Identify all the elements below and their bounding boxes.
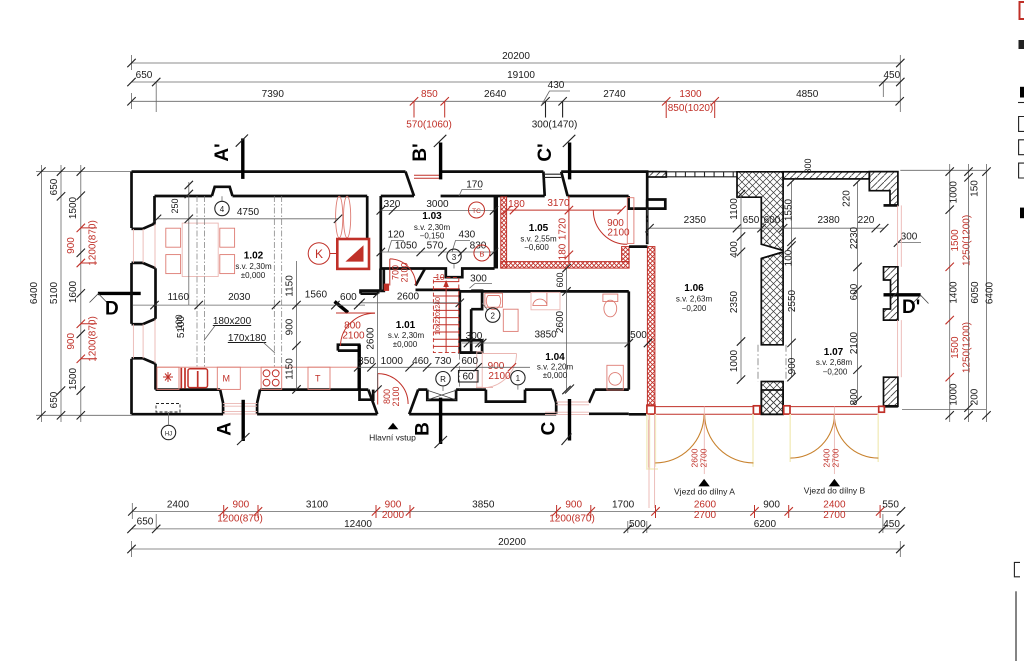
svg-text:450: 450 (883, 519, 900, 530)
right wall mid pier (hatched) (884, 267, 898, 320)
svg-text:1720: 1720 (558, 217, 569, 240)
svg-text:900: 900 (385, 500, 402, 511)
porch wall corner block (360, 390, 374, 400)
circle 4 (221, 196, 223, 201)
svg-text:3: 3 (452, 253, 457, 262)
1.06 dims (645, 190, 888, 384)
svg-text:400: 400 (729, 241, 740, 258)
svg-text:1700: 1700 (612, 500, 635, 511)
svg-text:1.01: 1.01 (396, 320, 416, 331)
section marker C' (568, 143, 571, 180)
dim 300 right wall (894, 232, 921, 247)
west wall outer face (130, 172, 133, 228)
garage entry labels (674, 448, 735, 496)
door 1.01 to 1.04: leaf + swing (460, 352, 517, 390)
svg-text:1000: 1000 (949, 181, 960, 204)
svg-text:2350: 2350 (729, 290, 740, 313)
chimney axis dash-dot lines (757, 345, 759, 382)
north wall 1.07 (diagonal hatch band) (783, 172, 869, 179)
door 1.03 to 1.01: leaf + swing + red infill (384, 259, 416, 291)
svg-text:Vjezd do dílny B: Vjezd do dílny B (804, 486, 866, 496)
svg-text:C: C (539, 421, 560, 435)
svg-text:300: 300 (803, 158, 813, 173)
svg-text:1250(1200): 1250(1200) (962, 322, 973, 373)
svg-text:1600: 1600 (68, 280, 79, 303)
chimney niche trapezoid in north wall (212, 187, 233, 196)
red jamb marker boxes (647, 405, 655, 414)
svg-text:1160: 1160 (168, 292, 190, 303)
north wall outer face (132, 170, 406, 173)
dim row3 7390/850/2640/430/2740/1300/4850 (127, 80, 904, 131)
1.01 dim 2600 vertical (366, 289, 382, 393)
svg-text:1150: 1150 (285, 358, 296, 380)
svg-text:250: 250 (170, 198, 180, 213)
svg-text:2700: 2700 (694, 510, 717, 521)
svg-text:3850: 3850 (472, 500, 495, 511)
1.02 dim 4750 (153, 181, 342, 223)
svg-text:900: 900 (233, 500, 250, 511)
svg-text:Hlavní vstup: Hlavní vstup (369, 433, 416, 443)
dim row1 bottom (128, 500, 905, 525)
svg-text:2100: 2100 (342, 331, 365, 342)
garage door B threshold (red) (790, 406, 879, 408)
svg-text:500: 500 (629, 519, 646, 530)
svg-text:180: 180 (508, 199, 525, 210)
stove K (red square with triangle) (330, 239, 369, 269)
dim row3 bottom 20200 (127, 537, 904, 557)
svg-text:3850: 3850 (534, 330, 557, 341)
1.04 wall pillar (471, 291, 482, 310)
svg-text:1100: 1100 (729, 198, 740, 220)
svg-text:6400: 6400 (985, 281, 996, 304)
red circle B (474, 245, 490, 261)
circle R (436, 372, 450, 386)
svg-text:550: 550 (882, 500, 899, 511)
svg-text:20200: 20200 (502, 51, 530, 62)
svg-text:B: B (479, 250, 484, 259)
main entrance label (388, 423, 399, 430)
svg-text:1.02: 1.02 (244, 251, 264, 262)
svg-text:600: 600 (340, 292, 357, 303)
corridor 300 dims (462, 274, 492, 348)
dim line 6400 left (29, 165, 46, 422)
svg-text:3000: 3000 (426, 199, 449, 210)
chimney middle block (crosshatch) (761, 252, 783, 345)
svg-text:60: 60 (462, 372, 474, 383)
left dimension chains (29, 165, 141, 422)
kitchen/porch divider (338, 345, 361, 351)
dim row1 20200 (127, 51, 904, 112)
svg-text:1400: 1400 (949, 281, 960, 304)
svg-text:7390: 7390 (262, 89, 285, 100)
right dimension chains (884, 164, 996, 422)
svg-text:120: 120 (388, 230, 405, 241)
section marker A (241, 400, 244, 441)
svg-text:100: 100 (784, 249, 795, 266)
svg-text:2400: 2400 (167, 500, 190, 511)
svg-text:300(1470): 300(1470) (532, 120, 578, 131)
svg-text:3170: 3170 (547, 198, 570, 209)
svg-text:2400: 2400 (823, 500, 846, 511)
svg-text:600: 600 (555, 272, 565, 287)
svg-text:350: 350 (358, 356, 375, 367)
top dimension chain (127, 51, 904, 131)
svg-text:1050: 1050 (395, 241, 418, 252)
svg-text:−0,200: −0,200 (823, 368, 848, 377)
red circle TC (469, 202, 485, 218)
svg-text:2550: 2550 (787, 289, 798, 312)
svg-text:19100: 19100 (507, 70, 535, 81)
svg-text:1550: 1550 (784, 198, 795, 221)
right wall window glazing (pink) upper (884, 205, 902, 266)
garage south closing line at house joint (629, 413, 647, 416)
svg-text:500: 500 (630, 330, 647, 341)
porch recess in south wall (486, 390, 525, 402)
1.02 vertical dim 1150/900/1150 (174, 261, 301, 394)
svg-text:1200(870): 1200(870) (217, 514, 263, 525)
svg-text:600: 600 (849, 283, 860, 300)
wall 1.03 south, top face with notch (380, 269, 495, 278)
svg-text:900: 900 (565, 500, 582, 511)
svg-text:220: 220 (842, 190, 853, 207)
dim row2 650/19100/450 (127, 70, 904, 112)
section marker C (568, 399, 571, 441)
svg-text:850: 850 (421, 89, 438, 100)
svg-text:650: 650 (743, 215, 760, 226)
svg-text:s.v. 2,68m: s.v. 2,68m (816, 358, 853, 367)
svg-text:4: 4 (220, 205, 225, 214)
hatched lintel over garage west joint (648, 172, 667, 177)
dim line 650/5100/650 left (49, 165, 65, 422)
svg-text:−0,200: −0,200 (682, 304, 707, 313)
svg-text:1.04: 1.04 (545, 352, 565, 363)
NE step of house top wall at garage joint (629, 172, 648, 209)
svg-text:900: 900 (763, 500, 780, 511)
svg-text:K: K (315, 247, 323, 261)
1.04 dims (478, 264, 652, 394)
1.04 fixtures (485, 292, 623, 390)
svg-text:±0,000: ±0,000 (393, 340, 418, 349)
svg-text:2380: 2380 (817, 215, 840, 226)
svg-text:1150: 1150 (285, 275, 296, 297)
1.02 radiator lenses (336, 196, 351, 238)
svg-text:−0,150: −0,150 (420, 232, 445, 241)
1.02 floor labels (176, 315, 275, 353)
west window2 jambs (132, 319, 156, 324)
svg-text:2230: 2230 (849, 226, 860, 249)
north wall inner face (155, 195, 212, 198)
south wall outer face (132, 413, 224, 416)
dim line 1500/900/1600/900/1500 left (66, 165, 99, 422)
1.01/1.04 wall (458, 290, 461, 353)
1.07 dims (784, 158, 862, 405)
C door-window (pink glazing) (545, 402, 589, 414)
chimney bottom block (crosshatch) (761, 382, 783, 415)
svg-text:300: 300 (470, 274, 487, 285)
svg-text:600: 600 (764, 215, 781, 226)
R niche with X mark (427, 390, 456, 400)
stairs in 1.01 (433, 273, 458, 353)
wall 1.03 south bottom face (416, 289, 460, 292)
C' window (grey glazing lines) (544, 174, 561, 177)
svg-text:Vjezd do dílny A: Vjezd do dílny A (674, 487, 735, 497)
svg-text:600: 600 (461, 356, 478, 367)
svg-text:850(1020): 850(1020) (668, 103, 714, 114)
svg-text:2600: 2600 (694, 500, 717, 511)
svg-text:1200(870): 1200(870) (88, 316, 99, 362)
section marker B' (439, 143, 442, 180)
1.05 new wall east step (red hatch) (622, 247, 630, 262)
kitchen counter row (157, 367, 358, 389)
bottom dimension chains (127, 500, 905, 558)
window west 2 (red glazing) (133, 320, 155, 364)
C door-window jambs (552, 390, 556, 414)
B' entry door (red glazing lines) (414, 175, 441, 178)
garage door A threshold (red) (655, 406, 753, 408)
svg-text:900: 900 (285, 318, 296, 335)
1.05 new wall west band (red hatch) (501, 197, 507, 268)
svg-text:1200(870): 1200(870) (88, 220, 99, 266)
svg-text:A': A' (212, 143, 233, 161)
svg-text:s.v. 2,30m: s.v. 2,30m (235, 262, 272, 271)
south wall inner face (156, 388, 221, 391)
red circle K (308, 243, 330, 265)
svg-text:900: 900 (787, 357, 798, 374)
svg-text:2600: 2600 (397, 292, 420, 303)
svg-text:300: 300 (466, 331, 483, 342)
dim line 150/6050/200 right (964, 164, 981, 422)
1.05 new wall south band (red hatch) (501, 262, 629, 269)
svg-text:220: 220 (858, 215, 875, 226)
svg-text:6200: 6200 (754, 519, 777, 530)
dim row2 bottom 650/12400/500/6200/450 (127, 514, 904, 533)
1.01 bottom chain 350/1000/460/730/600/900 (354, 356, 530, 383)
1.02 dining table (166, 223, 235, 276)
1.02 axes dash-dot (196, 196, 198, 367)
svg-text:320: 320 (384, 199, 401, 210)
svg-text:430: 430 (459, 230, 476, 241)
svg-text:1300: 1300 (679, 89, 702, 100)
door 1.02 to 1.01: leaf + swing (336, 313, 375, 346)
west window1 jambs (132, 223, 156, 229)
svg-text:900: 900 (66, 333, 77, 350)
svg-text:5100: 5100 (49, 281, 60, 304)
section marker B (439, 398, 442, 444)
1.04 north wall face (460, 290, 629, 293)
svg-text:1000: 1000 (381, 356, 404, 367)
430 sub-label with bent leader (541, 91, 570, 106)
svg-text:460: 460 (412, 356, 429, 367)
svg-text:450: 450 (883, 70, 900, 81)
svg-text:170x180: 170x180 (228, 333, 267, 344)
section marker D' (884, 295, 929, 318)
svg-text:2: 2 (490, 312, 495, 321)
svg-text:B: B (413, 422, 434, 436)
svg-text:1250(1200): 1250(1200) (962, 215, 973, 266)
svg-text:T: T (315, 374, 321, 384)
circle 1 (511, 371, 525, 385)
B' entry door jamb (406, 172, 415, 196)
svg-text:2740: 2740 (603, 89, 626, 100)
east wall of 1.04 (627, 291, 630, 389)
1.05 red dim lines (503, 196, 626, 262)
1.03 door right jamb slant (416, 269, 425, 286)
svg-text:2350: 2350 (684, 215, 707, 226)
svg-text:10: 10 (436, 273, 445, 282)
window west 1 (red glazing) (133, 224, 155, 268)
light north fence wall with tick divisions (666, 172, 737, 177)
svg-text:570: 570 (427, 241, 444, 252)
svg-text:1.07: 1.07 (824, 347, 844, 358)
main entrance door leaf + swing (378, 374, 408, 407)
svg-text:650: 650 (49, 178, 60, 195)
svg-text:800: 800 (849, 388, 860, 405)
svg-text:A: A (215, 422, 236, 436)
svg-text:300: 300 (901, 232, 918, 243)
chimney flue funnel notch (761, 252, 783, 259)
svg-text:430: 430 (548, 80, 565, 91)
garage door A swing (orange) (647, 407, 754, 474)
svg-text:TC: TC (472, 208, 481, 215)
svg-text:4850: 4850 (796, 89, 819, 100)
HJ dashed box (156, 404, 180, 413)
svg-text:1.05: 1.05 (529, 223, 549, 234)
svg-text:1500: 1500 (950, 229, 961, 252)
svg-text:R: R (440, 375, 446, 384)
svg-text:650: 650 (136, 70, 153, 81)
svg-text:1.03: 1.03 (422, 211, 442, 222)
svg-text:2700: 2700 (699, 448, 709, 467)
svg-text:1200(870): 1200(870) (549, 514, 595, 525)
section marker D (90, 293, 141, 319)
svg-text:150: 150 (970, 180, 981, 197)
section marker A' (241, 138, 244, 179)
svg-text:D: D (105, 299, 119, 320)
dim line 1000/1500/1400/1500/1000 right (946, 164, 973, 422)
garage west wall top anchor block (647, 200, 665, 209)
svg-text:3100: 3100 (306, 500, 329, 511)
chimney upper block (crosshatch) (737, 172, 783, 251)
svg-text:1.06: 1.06 (684, 283, 704, 294)
garage west new wall band (red hatch) (647, 247, 655, 406)
svg-text:C': C' (535, 143, 556, 161)
1.02/1.01 diagonal door jamb (335, 302, 349, 313)
red extension lines below garage west wall (648, 414, 650, 508)
chimney pier between garage doors (761, 390, 783, 414)
svg-text:730: 730 (435, 356, 452, 367)
red partial box top right (1020, 2, 1024, 19)
svg-text:1000: 1000 (729, 349, 740, 372)
svg-text:s.v. 2,30m: s.v. 2,30m (388, 331, 425, 340)
1.03 door left post (381, 269, 384, 291)
main entrance jambs (368, 390, 377, 415)
garage door B swing (orange) (790, 407, 878, 474)
svg-text:B': B' (410, 143, 431, 161)
NE corner block (diagonal hatch, stepped) (869, 172, 898, 206)
svg-text:M: M (223, 374, 231, 384)
svg-text:2600: 2600 (555, 310, 566, 333)
svg-text:12400: 12400 (344, 519, 372, 530)
svg-text:5100: 5100 (176, 315, 187, 338)
svg-text:1500: 1500 (950, 336, 961, 359)
svg-text:4750: 4750 (237, 207, 260, 218)
right wall window glazing (pink) lower (898, 320, 902, 377)
svg-text:2600: 2600 (366, 327, 377, 350)
svg-text:1500: 1500 (68, 196, 79, 219)
circle 3 (447, 249, 461, 263)
svg-text:s.v. 2,63m: s.v. 2,63m (676, 295, 713, 304)
svg-text:2100: 2100 (391, 386, 401, 406)
svg-text:170: 170 (466, 180, 483, 191)
svg-text:2700: 2700 (823, 510, 846, 521)
partial glyphs (1019, 40, 1024, 49)
svg-text:2100: 2100 (400, 262, 410, 282)
svg-text:HJ: HJ (165, 432, 172, 438)
svg-text:650: 650 (49, 391, 60, 408)
svg-text:2100: 2100 (488, 371, 511, 382)
1.02 dim row 1160/2030/1560/600 (133, 290, 365, 310)
terrace door jambs (section A) (220, 390, 223, 404)
1.03 dims (377, 180, 499, 257)
1.02 SE stub wall (361, 291, 379, 294)
svg-text:1500: 1500 (68, 367, 79, 390)
wicket door swing in garage SW corner (pink) (648, 420, 650, 468)
svg-text:2640: 2640 (484, 89, 507, 100)
svg-text:1560: 1560 (305, 290, 328, 301)
svg-text:650: 650 (137, 517, 154, 528)
right wall SE pier (hatched) (884, 377, 898, 406)
1.01 dim 2600 horizontal (356, 292, 464, 307)
svg-text:570(1060): 570(1060) (406, 120, 452, 131)
svg-text:6050: 6050 (970, 281, 981, 304)
svg-text:2100: 2100 (849, 331, 860, 354)
C' window jambs (543, 172, 544, 196)
svg-text:1: 1 (516, 374, 521, 383)
svg-text:2700: 2700 (831, 448, 841, 467)
west wall inner face (153, 196, 156, 223)
svg-text:2000: 2000 (382, 510, 405, 521)
1.03 east wall (494, 196, 498, 269)
svg-text:±0,000: ±0,000 (241, 271, 266, 280)
svg-text:180: 180 (558, 243, 569, 260)
svg-text:2100: 2100 (607, 228, 630, 239)
svg-text:200: 200 (970, 388, 981, 405)
circle HJ (161, 425, 175, 439)
svg-text:900: 900 (66, 237, 77, 254)
wall 1.02/1.03 (366, 196, 369, 269)
svg-text:20200: 20200 (498, 537, 526, 548)
door 1.05 to east: leaf + swing (593, 198, 647, 247)
svg-text:6400: 6400 (29, 281, 40, 304)
svg-text:1000: 1000 (949, 383, 960, 406)
svg-text:2030: 2030 (228, 292, 251, 303)
circle 2 with leader (482, 303, 487, 310)
terrace door at A (red glazing) (223, 404, 257, 414)
svg-text:±0,000: ±0,000 (543, 371, 568, 380)
svg-text:180x200: 180x200 (213, 316, 252, 327)
svg-text:D': D' (902, 297, 920, 318)
svg-text:−0,600: −0,600 (524, 243, 549, 252)
dim line 6400 right (982, 164, 995, 422)
